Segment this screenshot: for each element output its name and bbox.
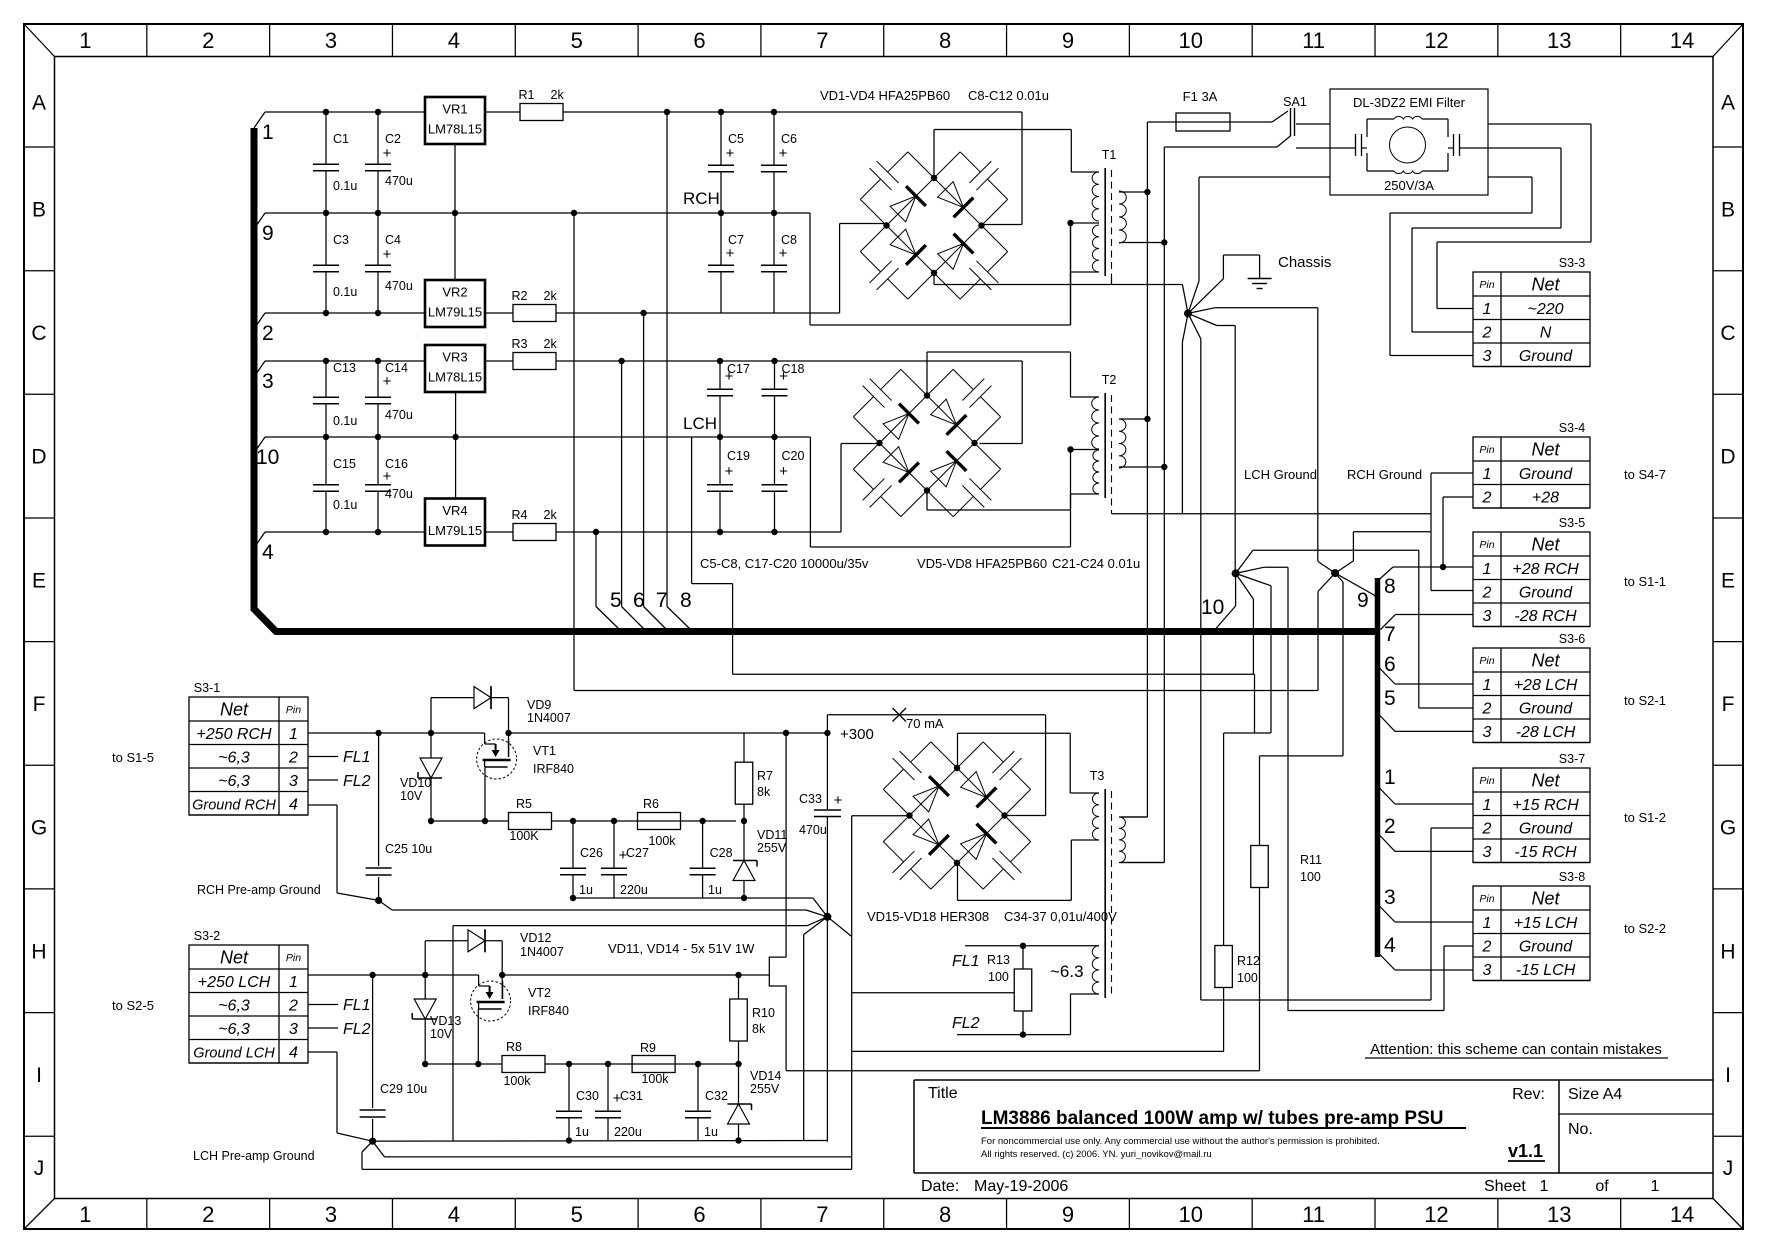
svg-text:+15 LCH: +15 LCH xyxy=(1514,915,1578,932)
svg-text:4: 4 xyxy=(289,796,298,813)
svg-text:R4: R4 xyxy=(512,508,528,522)
svg-text:C6: C6 xyxy=(781,132,797,146)
svg-text:0.1u: 0.1u xyxy=(333,285,357,299)
svg-text:8: 8 xyxy=(939,28,951,53)
wire EMI to S3-3 pin1 (~220) xyxy=(1437,124,1591,309)
svg-text:1: 1 xyxy=(1483,301,1492,318)
svg-text:LM78L15: LM78L15 xyxy=(428,370,482,385)
bus tap wire 9 xyxy=(254,213,274,245)
capacitor C26 xyxy=(560,821,603,898)
svg-text:FL2: FL2 xyxy=(343,1021,371,1038)
svg-text:S3-1: S3-1 xyxy=(194,681,220,695)
svg-text:+28 RCH: +28 RCH xyxy=(1512,561,1579,578)
ground hub star2 xyxy=(804,898,852,1142)
svg-text:C19: C19 xyxy=(727,449,750,463)
capacitor C30 xyxy=(556,1064,599,1140)
svg-text:IRF840: IRF840 xyxy=(533,762,574,776)
svg-text:F1 3A: F1 3A xyxy=(1183,89,1218,104)
wire R13 ground feed xyxy=(852,816,1014,1170)
svg-text:5: 5 xyxy=(571,28,583,53)
svg-text:1: 1 xyxy=(79,28,91,53)
svg-text:14: 14 xyxy=(1670,1202,1694,1227)
svg-text:C1: C1 xyxy=(333,132,349,146)
svg-text:2: 2 xyxy=(262,322,274,345)
svg-text:+: + xyxy=(779,245,788,262)
svg-text:100: 100 xyxy=(1300,870,1321,884)
svg-text:1: 1 xyxy=(79,1202,91,1227)
wire VR3-VR4 ground link xyxy=(455,391,457,498)
svg-text:C32: C32 xyxy=(705,1089,728,1103)
svg-text:2: 2 xyxy=(288,749,298,766)
svg-text:7: 7 xyxy=(1384,623,1396,646)
wire S3-2 pin4 ground xyxy=(308,1052,376,1145)
svg-text:1: 1 xyxy=(1483,561,1492,578)
wire S3-6 ground xyxy=(1419,707,1473,709)
svg-text:Pin: Pin xyxy=(1479,539,1494,551)
cable bus (left, thick) xyxy=(254,128,1375,632)
svg-text:T2: T2 xyxy=(1102,373,1117,387)
svg-text:+28: +28 xyxy=(1532,489,1559,506)
svg-text:3: 3 xyxy=(1483,608,1492,625)
svg-text:VD15-VD18 HER308: VD15-VD18 HER308 xyxy=(867,909,989,924)
svg-text:3: 3 xyxy=(1483,844,1492,861)
svg-text:3: 3 xyxy=(289,1021,298,1038)
svg-text:+: + xyxy=(619,847,628,864)
wire bridge3 top vertex to T3 xyxy=(958,733,1071,793)
svg-text:+: + xyxy=(383,246,392,263)
svg-text:~6,3: ~6,3 xyxy=(218,997,250,1014)
connector table S3-4 xyxy=(1473,421,1590,508)
svg-text:C: C xyxy=(1720,322,1735,345)
wire FL2 stub (LCH) xyxy=(308,1021,371,1038)
svg-text:10: 10 xyxy=(1179,28,1203,53)
resistor R3 xyxy=(512,337,558,370)
zener diode VD13 10V xyxy=(412,999,461,1041)
svg-text:13: 13 xyxy=(1547,1202,1571,1227)
svg-text:A: A xyxy=(1721,91,1735,114)
attention note xyxy=(1365,1041,1668,1058)
svg-text:10V: 10V xyxy=(400,789,423,803)
wire bridge1 AC bottom xyxy=(934,272,1182,285)
svg-text:Chassis: Chassis xyxy=(1278,254,1331,271)
resistor R4 xyxy=(512,508,558,541)
svg-text:VD12: VD12 xyxy=(520,931,551,945)
svg-text:B: B xyxy=(1721,198,1735,221)
svg-text:1: 1 xyxy=(289,726,298,743)
wire VT1 drain xyxy=(508,733,510,757)
svg-text:470u: 470u xyxy=(385,408,413,422)
svg-text:Net: Net xyxy=(1531,771,1560,791)
svg-text:2: 2 xyxy=(202,1202,214,1227)
bus tap wire 2 xyxy=(254,313,274,345)
svg-text:Title: Title xyxy=(928,1085,958,1102)
svg-text:6: 6 xyxy=(1384,653,1396,676)
svg-text:C29 10u: C29 10u xyxy=(380,1082,427,1096)
connector table S3-1 xyxy=(189,681,308,815)
zener diode VD13 10V xyxy=(412,975,461,1064)
svg-text:VD9: VD9 xyxy=(527,698,551,712)
svg-text:3: 3 xyxy=(1384,886,1396,909)
wire T1 center tap xyxy=(1070,225,1072,325)
svg-text:to S2-5: to S2-5 xyxy=(112,998,154,1013)
svg-text:C31: C31 xyxy=(620,1089,643,1103)
diode VD9 xyxy=(473,686,491,709)
svg-text:RCH Pre-amp Ground: RCH Pre-amp Ground xyxy=(197,883,321,897)
wire +250 RCH line xyxy=(308,730,736,740)
svg-text:C26: C26 xyxy=(580,846,603,860)
svg-text:1: 1 xyxy=(1483,915,1492,932)
wire T2 screen ground xyxy=(1112,513,1183,515)
wire S3-4 ground chain xyxy=(1182,473,1473,591)
svg-text:LM3886 balanced 100W amp w/ tu: LM3886 balanced 100W amp w/ tubes pre-am… xyxy=(981,1108,1443,1129)
svg-text:2k: 2k xyxy=(544,289,558,303)
svg-text:VD13: VD13 xyxy=(430,1014,461,1028)
svg-text:FL1: FL1 xyxy=(952,953,980,970)
svg-text:FL2: FL2 xyxy=(343,773,371,790)
svg-text:VT2: VT2 xyxy=(528,986,551,1000)
svg-text:Pin: Pin xyxy=(1479,655,1494,667)
svg-text:7: 7 xyxy=(816,28,828,53)
svg-text:~6.3: ~6.3 xyxy=(1050,962,1084,981)
svg-text:1: 1 xyxy=(1483,466,1492,483)
capacitor C29 10u xyxy=(360,975,428,1141)
diode VD12 1N4007 xyxy=(425,929,564,975)
svg-text:2k: 2k xyxy=(551,88,565,102)
svg-text:9: 9 xyxy=(1357,589,1369,612)
capacitor C13 xyxy=(313,361,356,437)
svg-text:70 mA: 70 mA xyxy=(906,716,944,731)
zener diode VD14 255V xyxy=(728,1069,782,1124)
svg-text:Net: Net xyxy=(1531,275,1560,295)
resistor xyxy=(638,813,681,830)
svg-text:Date:: Date: xyxy=(921,1178,959,1195)
svg-text:7: 7 xyxy=(656,589,668,612)
wire EMI to S3-3 pin2 (N) xyxy=(1412,148,1561,332)
svg-text:R13: R13 xyxy=(987,953,1010,967)
svg-text:Ground LCH: Ground LCH xyxy=(193,1045,275,1061)
wire tap5 right (-28 LCH) xyxy=(1378,687,1474,731)
svg-text:14: 14 xyxy=(1670,28,1694,53)
wire RCH-ground rail (wire9) xyxy=(265,210,1071,325)
svg-text:C33: C33 xyxy=(799,792,822,806)
capacitor C8 xyxy=(761,213,797,313)
svg-text:LCH Pre-amp Ground: LCH Pre-amp Ground xyxy=(193,1149,315,1163)
svg-text:0.1u: 0.1u xyxy=(333,498,357,512)
svg-text:+: + xyxy=(834,792,843,809)
svg-text:+: + xyxy=(779,145,788,162)
svg-text:+: + xyxy=(725,368,734,385)
svg-text:1: 1 xyxy=(1483,677,1492,694)
svg-text:C21-C24 0.01u: C21-C24 0.01u xyxy=(1052,556,1140,571)
wire EMI ground to chassis star xyxy=(1199,177,1330,281)
svg-text:2: 2 xyxy=(1482,820,1492,837)
svg-text:470u: 470u xyxy=(385,279,413,293)
svg-text:For noncommercial use only. An: For noncommercial use only. Any commerci… xyxy=(981,1136,1380,1147)
svg-text:Pin: Pin xyxy=(1479,775,1494,787)
svg-text:255V: 255V xyxy=(757,841,787,855)
svg-text:100k: 100k xyxy=(648,834,676,848)
svg-text:VR1: VR1 xyxy=(442,102,467,117)
svg-text:11: 11 xyxy=(1302,1202,1325,1227)
capacitor C14 xyxy=(365,361,408,437)
wire tap6 (+28LCH to bus) xyxy=(622,361,645,629)
wire bridge1 AC top xyxy=(934,130,1071,179)
connector table S3-7 xyxy=(1473,752,1590,863)
svg-text:to S1-2: to S1-2 xyxy=(1624,810,1666,825)
capacitor C33 470u xyxy=(799,733,843,917)
svg-text:C30: C30 xyxy=(576,1089,599,1103)
bridge rectifier VD5-VD8 xyxy=(853,369,1000,516)
svg-text:12: 12 xyxy=(1424,1202,1448,1227)
svg-text:VD10: VD10 xyxy=(400,776,431,790)
svg-text:May-19-2006: May-19-2006 xyxy=(974,1178,1068,1195)
EMI filter DL-3DZ2 xyxy=(1330,89,1488,195)
resistor xyxy=(502,1056,545,1073)
svg-text:470u: 470u xyxy=(385,487,413,501)
svg-text:~6,3: ~6,3 xyxy=(218,749,250,766)
svg-text:10V: 10V xyxy=(430,1027,453,1041)
svg-text:C: C xyxy=(31,322,46,345)
svg-text:4: 4 xyxy=(448,1202,460,1227)
svg-text:10: 10 xyxy=(1179,1202,1203,1227)
wire B (RCH gnd link) xyxy=(574,213,1318,691)
svg-text:C20: C20 xyxy=(782,449,805,463)
LCH ground star node xyxy=(1201,550,1419,1011)
wire preamp gnd line3 xyxy=(453,926,808,1141)
resistor xyxy=(632,1056,675,1073)
svg-text:3: 3 xyxy=(1483,962,1492,979)
svg-text:VD11: VD11 xyxy=(757,828,787,842)
svg-text:SA1: SA1 xyxy=(1283,95,1307,109)
capacitor C18 xyxy=(762,361,805,437)
svg-text:~6,3: ~6,3 xyxy=(218,1021,250,1038)
svg-text:2: 2 xyxy=(1482,584,1492,601)
wire S3-4 +28 link xyxy=(1440,497,1473,570)
svg-text:VR4: VR4 xyxy=(442,503,467,518)
svg-text:F: F xyxy=(1722,693,1735,716)
svg-text:2: 2 xyxy=(1384,815,1396,838)
svg-text:Ground: Ground xyxy=(1519,938,1573,955)
wire VT1 source xyxy=(482,767,488,824)
svg-text:250V/3A: 250V/3A xyxy=(1384,178,1434,193)
capacitor C25 10u xyxy=(366,733,433,900)
svg-text:1N4007: 1N4007 xyxy=(527,711,571,725)
svg-text:7: 7 xyxy=(816,1202,828,1227)
svg-text:Net: Net xyxy=(220,700,249,720)
svg-text:R9: R9 xyxy=(640,1041,656,1055)
zener diode VD10 10V xyxy=(400,758,442,803)
svg-text:3: 3 xyxy=(325,28,337,53)
svg-text:VD14: VD14 xyxy=(750,1069,781,1083)
svg-text:9: 9 xyxy=(1062,1202,1074,1227)
capacitor C28 xyxy=(690,821,733,898)
svg-text:Net: Net xyxy=(220,948,249,968)
bus tap wire 10 xyxy=(254,437,279,469)
wire bridge3 right vertex xyxy=(1005,815,1046,817)
wire 70mA measure link xyxy=(827,708,1045,816)
svg-text:RCH: RCH xyxy=(683,189,720,208)
connector table S3-3 xyxy=(1473,256,1590,367)
svg-text:S3-3: S3-3 xyxy=(1559,256,1585,270)
svg-text:1: 1 xyxy=(289,974,298,991)
wire tap4 right (-15 LCH) xyxy=(1378,934,1474,970)
svg-text:+: + xyxy=(726,245,735,262)
svg-text:9: 9 xyxy=(1062,28,1074,53)
svg-text:~220: ~220 xyxy=(1527,301,1563,318)
wire EMI ground to S3-3 pin3 xyxy=(1390,177,1532,356)
svg-text:VD5-VD8 HFA25PB60: VD5-VD8 HFA25PB60 xyxy=(917,556,1047,571)
svg-text:R11: R11 xyxy=(1300,853,1322,867)
capacitor C31 xyxy=(595,1064,643,1140)
svg-text:5: 5 xyxy=(1384,687,1396,710)
svg-text:+: + xyxy=(779,368,788,385)
svg-text:1: 1 xyxy=(1651,1178,1660,1195)
svg-text:Net: Net xyxy=(1531,440,1560,460)
svg-text:B: B xyxy=(32,198,46,221)
wire bridge2 AC bottom xyxy=(927,491,1071,511)
resistor xyxy=(509,813,552,830)
resistor R13 100 xyxy=(987,943,1032,1038)
svg-text:1u: 1u xyxy=(575,1125,589,1139)
svg-text:3: 3 xyxy=(325,1202,337,1227)
svg-text:4: 4 xyxy=(289,1044,298,1061)
svg-text:+: + xyxy=(383,468,392,485)
wire +28LCH (wire3) xyxy=(265,358,1022,444)
svg-text:J: J xyxy=(1723,1157,1734,1180)
wire bridge3 left vertex to ground xyxy=(852,815,910,817)
svg-text:2: 2 xyxy=(1482,324,1492,341)
svg-text:G: G xyxy=(1720,817,1736,840)
capacitor C1 xyxy=(313,112,349,213)
svg-text:R10: R10 xyxy=(752,1006,775,1020)
bridge rectifier VD15-VD18 xyxy=(883,742,1030,889)
resistor R11 100 xyxy=(1251,756,1343,1071)
resistor R7 8k xyxy=(735,733,773,861)
svg-text:C25 10u: C25 10u xyxy=(385,842,432,856)
diode VD9 1N4007 xyxy=(431,686,571,733)
chassis ground node (star) xyxy=(1182,255,1317,1000)
resistor R2 xyxy=(512,289,558,322)
svg-text:VR3: VR3 xyxy=(442,350,467,365)
wire FL2 stub (RCH) xyxy=(308,773,371,790)
svg-text:Pin: Pin xyxy=(286,952,301,964)
svg-text:Ground: Ground xyxy=(1519,584,1573,601)
svg-text:Pin: Pin xyxy=(1479,279,1494,291)
svg-text:470u: 470u xyxy=(385,174,413,188)
svg-text:to S2-1: to S2-1 xyxy=(1624,693,1666,708)
connector table S3-6 xyxy=(1473,632,1590,743)
svg-text:LM78L15: LM78L15 xyxy=(428,122,482,137)
wire bridge3 bottom to T3 xyxy=(958,840,1072,900)
svg-text:12: 12 xyxy=(1424,28,1448,53)
svg-text:FL2: FL2 xyxy=(952,1015,980,1032)
svg-text:Ground: Ground xyxy=(1519,466,1573,483)
capacitor C20 xyxy=(762,437,805,532)
wire preamp gnd line2 xyxy=(379,900,806,910)
svg-text:4: 4 xyxy=(262,541,274,564)
svg-text:+250 LCH: +250 LCH xyxy=(198,974,271,991)
svg-text:4: 4 xyxy=(448,28,460,53)
svg-text:G: G xyxy=(31,817,47,840)
svg-text:3: 3 xyxy=(262,370,274,393)
svg-text:FL1: FL1 xyxy=(343,749,371,766)
svg-text:11: 11 xyxy=(1302,28,1325,53)
svg-text:220u: 220u xyxy=(620,883,648,897)
svg-text:RCH Ground: RCH Ground xyxy=(1347,467,1422,482)
wire S3-8 ground return xyxy=(1288,946,1473,1011)
svg-text:C3: C3 xyxy=(333,233,349,247)
svg-text:C8-C12 0.01u: C8-C12 0.01u xyxy=(968,88,1049,103)
svg-text:DL-3DZ2 EMI Filter: DL-3DZ2 EMI Filter xyxy=(1353,95,1466,110)
svg-text:+: + xyxy=(383,145,392,162)
svg-text:~6,3: ~6,3 xyxy=(218,773,250,790)
capacitor C4 xyxy=(365,213,401,313)
wire +250 LCH line xyxy=(308,972,769,982)
svg-text:2: 2 xyxy=(1482,700,1492,717)
wire -28LCH (wire4) xyxy=(265,444,879,536)
svg-text:N: N xyxy=(1540,324,1552,341)
svg-text:3: 3 xyxy=(289,773,298,790)
svg-text:to S1-1: to S1-1 xyxy=(1624,574,1666,589)
svg-text:1u: 1u xyxy=(708,883,722,897)
svg-text:FL1: FL1 xyxy=(343,997,371,1014)
svg-text:VD11, VD14 - 5x 51V 1W: VD11, VD14 - 5x 51V 1W xyxy=(608,941,755,956)
wire VR1-VR2 ground link xyxy=(454,144,456,280)
svg-text:R8: R8 xyxy=(506,1040,522,1054)
svg-text:1: 1 xyxy=(1384,766,1396,789)
wire LCH-ground rail (wire10) xyxy=(265,434,1071,675)
svg-text:+: + xyxy=(726,145,735,162)
svg-text:100k: 100k xyxy=(641,1072,669,1086)
wire S3-7 ground return xyxy=(1201,828,1473,1000)
svg-text:Rev:: Rev: xyxy=(1512,1086,1545,1103)
zener diode VD11 255V xyxy=(733,828,787,881)
svg-text:S3-7: S3-7 xyxy=(1559,752,1585,766)
transistor VT1 IRF840 xyxy=(477,739,574,779)
capacitor C17 xyxy=(707,361,750,437)
svg-text:6: 6 xyxy=(693,1202,705,1227)
connector table S3-2 xyxy=(189,929,308,1063)
svg-text:C4: C4 xyxy=(385,233,401,247)
svg-text:Net: Net xyxy=(1531,889,1560,909)
svg-text:2: 2 xyxy=(202,28,214,53)
wire source rail RCH xyxy=(428,818,747,824)
svg-text:C2: C2 xyxy=(385,132,401,146)
wire bottom equalization xyxy=(786,1070,1259,1072)
svg-text:to S1-5: to S1-5 xyxy=(112,750,154,765)
svg-text:C15: C15 xyxy=(333,457,356,471)
fuse F1 3A xyxy=(1176,89,1272,131)
svg-text:8k: 8k xyxy=(752,1022,766,1036)
svg-text:R3: R3 xyxy=(512,337,528,351)
bus tap wire 3 xyxy=(254,361,274,393)
svg-text:470u: 470u xyxy=(799,823,827,837)
svg-text:1N4007: 1N4007 xyxy=(520,945,564,959)
wire +300 rail xyxy=(736,726,874,1071)
wire LCH gnd line2 xyxy=(373,1141,851,1157)
svg-text:2k: 2k xyxy=(544,508,558,522)
svg-text:Pin: Pin xyxy=(1479,444,1494,456)
svg-text:T1: T1 xyxy=(1102,148,1117,162)
capacitor C27 xyxy=(601,821,649,898)
capacitor C2 xyxy=(365,112,401,213)
wire tap8 (+28RCH to bus) xyxy=(667,112,692,629)
transformer T3 xyxy=(957,769,1164,1035)
diode VD12 xyxy=(467,929,485,952)
svg-text:R12: R12 xyxy=(1237,954,1260,968)
wire -28RCH (wire2) xyxy=(265,224,887,317)
svg-text:+: + xyxy=(613,1090,622,1107)
